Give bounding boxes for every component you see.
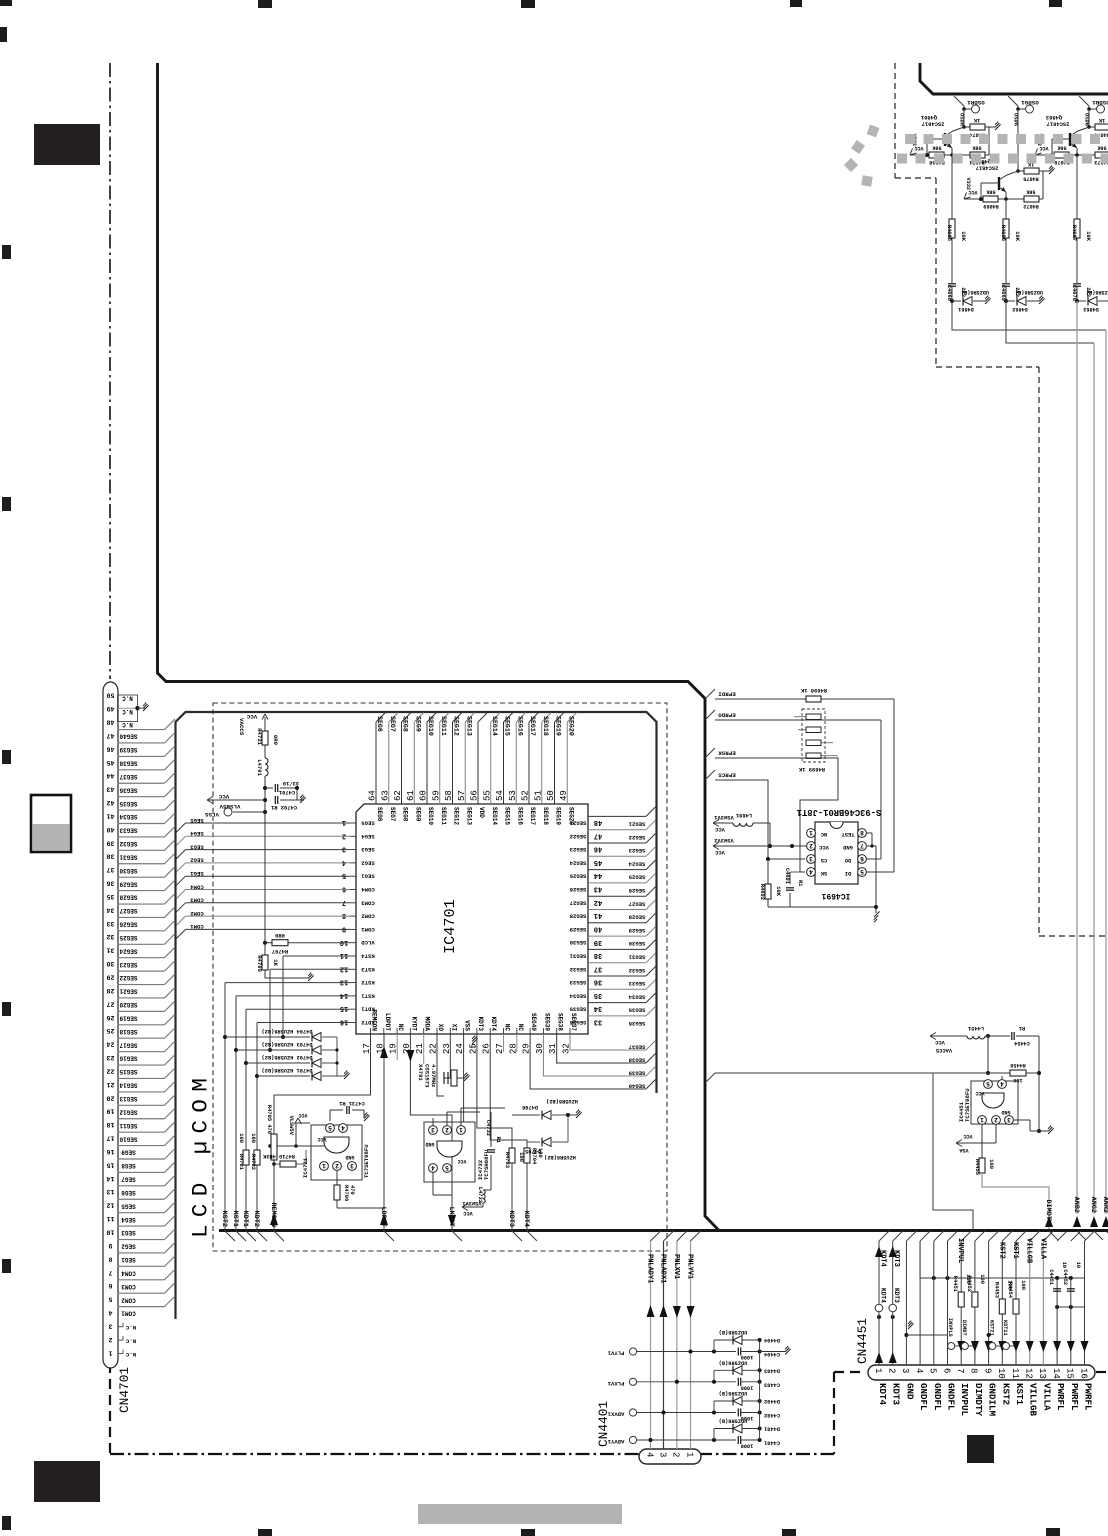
power arrow VCC V332 (B) bbox=[1035, 154, 1052, 156]
wire IC4701 pin 56 VDD to bus bbox=[477, 722, 479, 804]
svg-text:KST2: KST2 bbox=[220, 1211, 228, 1227]
wire IC4701 pin 6 COM4 to CN4701 bus bbox=[186, 889, 351, 891]
svg-text:33: 33 bbox=[107, 920, 115, 927]
wire IC4701 pin 2 SEG4 to CN4701 bus bbox=[186, 835, 351, 837]
svg-text:COM2: COM2 bbox=[361, 913, 375, 920]
wire IC4701 pin 40 SEG29 to bus bbox=[588, 922, 646, 924]
wire CN4701 pin 21 net SEG14 bbox=[118, 1077, 165, 1079]
svg-text:56K: 56K bbox=[971, 145, 981, 151]
svg-text:SEG4: SEG4 bbox=[121, 1216, 136, 1223]
wire CN4701 pin 47 net SEG40 bbox=[118, 729, 165, 731]
svg-text:D4863: D4863 bbox=[1083, 306, 1099, 312]
resistor R4698 bbox=[806, 696, 821, 702]
page border right of CN4451 bbox=[1096, 1371, 1108, 1373]
svg-text:C4701: C4701 bbox=[279, 789, 295, 795]
svg-text:Q4863: Q4863 bbox=[1046, 114, 1062, 120]
svg-text:SEG5: SEG5 bbox=[121, 1202, 136, 1209]
svg-text:10K: 10K bbox=[960, 231, 966, 241]
svg-text:SEG18: SEG18 bbox=[542, 807, 549, 825]
gate IC4732 AND bbox=[437, 1141, 462, 1157]
power arrow VLSW5V bbox=[207, 799, 265, 801]
wire CN4701 pin 23 net SEG16 bbox=[118, 1051, 165, 1053]
svg-text:L4691: L4691 bbox=[736, 812, 752, 818]
svg-text:SEG14: SEG14 bbox=[491, 716, 498, 736]
svg-text:D4703 HZU5R6(B2): D4703 HZU5R6(B2) bbox=[262, 1041, 313, 1047]
svg-text:R4075: R4075 bbox=[1023, 176, 1039, 182]
wire pin26 KDT4 bbox=[490, 1034, 527, 1231]
wire CN4701 pin 39 net SEG32 bbox=[118, 836, 165, 838]
svg-text:20: 20 bbox=[107, 1094, 115, 1101]
svg-text:47: 47 bbox=[107, 732, 115, 739]
wire cell output bbox=[1076, 300, 1078, 302]
wire EPRDO bbox=[715, 719, 881, 721]
wire IC4701 pin 51 SEG18 to bus bbox=[541, 722, 543, 804]
svg-text:SEG5: SEG5 bbox=[361, 820, 375, 827]
svg-text:PWRFL: PWRFL bbox=[1069, 1383, 1080, 1411]
svg-text:SEG35: SEG35 bbox=[628, 1007, 645, 1014]
svg-text:26: 26 bbox=[107, 1014, 115, 1021]
svg-text:C4702 R1: C4702 R1 bbox=[271, 804, 297, 810]
wire KDT3 bbox=[892, 1241, 894, 1304]
inductor L4691 bbox=[733, 823, 753, 826]
svg-text:R4706: R4706 bbox=[343, 1185, 349, 1201]
svg-text:VSA: VSA bbox=[958, 1147, 968, 1153]
svg-text:33/10: 33/10 bbox=[283, 780, 299, 786]
diode D4703 HZU5R6(B2) bbox=[234, 1048, 238, 1052]
svg-text:SEG32: SEG32 bbox=[119, 840, 137, 847]
resistor network R4699 d bbox=[806, 753, 821, 759]
node OSDR1 entry slash bbox=[954, 96, 964, 106]
svg-text:SEG24: SEG24 bbox=[119, 947, 137, 954]
svg-text:4: 4 bbox=[1000, 1080, 1004, 1087]
wire CN4701 pin 34 net SEG27 bbox=[118, 903, 165, 905]
svg-text:SEG16: SEG16 bbox=[119, 1055, 137, 1062]
crystal X4701 bbox=[436, 1086, 438, 1093]
capacitor C4404 1000 bbox=[737, 1348, 739, 1356]
svg-text:LDPDT: LDPDT bbox=[384, 1013, 391, 1031]
svg-text:UDZ5R6(B): UDZ5R6(B) bbox=[719, 1329, 748, 1335]
svg-text:SEG24: SEG24 bbox=[628, 860, 645, 867]
svg-text:D4402: D4402 bbox=[764, 1398, 780, 1404]
svg-text:34: 34 bbox=[594, 1004, 602, 1012]
svg-text:8: 8 bbox=[969, 1368, 979, 1373]
svg-text:N.C: N.C bbox=[125, 1337, 136, 1344]
wire C4701 right down bbox=[296, 788, 298, 800]
terminal PLXV1 bbox=[629, 1378, 636, 1385]
IC4701 pin 8 stub bbox=[350, 915, 356, 917]
svg-text:SEG29: SEG29 bbox=[569, 926, 586, 933]
svg-text:6: 6 bbox=[941, 1368, 951, 1373]
wire ADVY1 row bbox=[637, 1439, 736, 1441]
svg-text:17: 17 bbox=[107, 1135, 115, 1142]
svg-text:SEG16: SEG16 bbox=[516, 716, 523, 736]
svg-text:N.C: N.C bbox=[122, 694, 133, 701]
svg-text:SEG39: SEG39 bbox=[119, 746, 137, 753]
capacitor C4702 bbox=[274, 796, 276, 804]
terminal DIMDT bbox=[961, 1343, 968, 1350]
net exit EPRCS bbox=[705, 770, 715, 780]
page border left lower dash-dot bbox=[109, 1363, 111, 1453]
svg-text:UDZ5R6(B): UDZ5R6(B) bbox=[1015, 289, 1043, 295]
svg-text:UDZ5R6(B): UDZ5R6(B) bbox=[1086, 289, 1108, 295]
eeprom pin 6 DO bbox=[858, 855, 867, 864]
svg-text:COM3: COM3 bbox=[361, 899, 375, 906]
wire CN4701 pin 10 net SEG3 bbox=[118, 1225, 165, 1227]
resistor R4692 bbox=[765, 884, 771, 899]
wire GNDFL pin 5 bbox=[933, 1241, 935, 1365]
svg-text:INVPLS: INVPLS bbox=[947, 1318, 953, 1337]
svg-text:3: 3 bbox=[431, 1126, 435, 1133]
svg-text:1: 1 bbox=[108, 1349, 112, 1356]
svg-text:56K: 56K bbox=[931, 145, 941, 151]
svg-text:32: 32 bbox=[107, 933, 115, 940]
wire gate4 out bbox=[432, 1172, 434, 1195]
svg-text:1K: 1K bbox=[1098, 117, 1105, 123]
wire DIMDTY lower bbox=[974, 1307, 976, 1365]
svg-text:SEG37: SEG37 bbox=[629, 1044, 646, 1051]
svg-text:SEG19: SEG19 bbox=[555, 807, 562, 825]
svg-text:SEG33: SEG33 bbox=[119, 827, 137, 834]
wire EPRCS bbox=[715, 780, 805, 859]
wire IC4701 pin 62 SEG8 to bus bbox=[401, 722, 403, 804]
wire CN4701 pin 37 net SEG30 bbox=[118, 863, 165, 865]
wire CN4701 pin 35 net SEG28 bbox=[118, 890, 165, 892]
svg-text:PNLXV1: PNLXV1 bbox=[672, 1254, 680, 1279]
svg-text:CSS1573: CSS1573 bbox=[424, 1064, 431, 1088]
gate IC4732 pin2 bbox=[443, 1126, 452, 1135]
svg-text:31: 31 bbox=[107, 947, 115, 954]
svg-text:8: 8 bbox=[342, 911, 346, 919]
svg-text:1000: 1000 bbox=[741, 1354, 754, 1360]
grey overlay band row2 bbox=[897, 154, 1108, 164]
svg-text:4.97MHz: 4.97MHz bbox=[430, 1064, 437, 1088]
wire emitter chain bbox=[1005, 199, 1007, 219]
svg-text:KDT1: KDT1 bbox=[241, 1211, 249, 1227]
wire CN4701 pin 12 net SEG5 bbox=[118, 1198, 165, 1200]
svg-text:52: 52 bbox=[521, 790, 531, 801]
net exit KDT1 bbox=[246, 1231, 256, 1241]
svg-text:3: 3 bbox=[1007, 1116, 1011, 1123]
diode D4701 HZU5R6(B2) bbox=[255, 1074, 259, 1078]
svg-text:KST2: KST2 bbox=[361, 979, 375, 986]
svg-text:TEST: TEST bbox=[841, 831, 855, 837]
wire OSDG1 to collector node bbox=[1017, 109, 1019, 171]
resistor network R4699 c bbox=[806, 740, 821, 746]
svg-text:13: 13 bbox=[107, 1188, 115, 1195]
svg-text:28: 28 bbox=[107, 987, 115, 994]
ground C4702 bbox=[297, 799, 304, 801]
wire IC4701 pin 42 SEG27 to bus bbox=[588, 895, 646, 897]
resistor R4702 bbox=[254, 1150, 260, 1165]
resistor R4701 bbox=[243, 1150, 249, 1165]
svg-text:HZU5R6(B2): HZU5R6(B2) bbox=[544, 1154, 576, 1160]
gate IC4731 pin1 bbox=[320, 1162, 329, 1171]
resistor network dashed box bbox=[802, 709, 825, 762]
net exit KDT4 bbox=[527, 1231, 537, 1241]
svg-text:R4701: R4701 bbox=[238, 1154, 244, 1170]
svg-text:SEG36: SEG36 bbox=[119, 786, 137, 793]
svg-text:HZU5R6(B2): HZU5R6(B2) bbox=[546, 1098, 578, 1104]
inductor L4701 bbox=[265, 758, 268, 776]
power arrow VCC V332 (R) bbox=[910, 154, 927, 156]
svg-text:R4453: R4453 bbox=[993, 1282, 999, 1298]
svg-text:D4401: D4401 bbox=[764, 1426, 780, 1432]
svg-text:PNLADY1: PNLADY1 bbox=[646, 1254, 654, 1283]
svg-text:KST1: KST1 bbox=[1011, 1242, 1019, 1259]
wire IC4701 pin 36 SEG33 to bus bbox=[588, 975, 646, 977]
gate IC4451 pin2 bbox=[992, 1116, 1001, 1125]
svg-text:14: 14 bbox=[340, 991, 348, 999]
transistor Q4862 2SC4617 bbox=[998, 177, 1000, 190]
slash CN4451 pin 5 bbox=[934, 1231, 944, 1241]
wire VACC5 to R4731 bbox=[264, 726, 266, 731]
svg-text:12: 12 bbox=[107, 1202, 115, 1209]
svg-text:SEG35: SEG35 bbox=[569, 1006, 586, 1013]
slash CN4451 pin 13 bbox=[1043, 1231, 1053, 1241]
wire base bias bbox=[926, 139, 928, 155]
svg-text:SEG15: SEG15 bbox=[504, 807, 511, 825]
svg-text:COM2: COM2 bbox=[190, 910, 204, 917]
IC4701 pin 7 stub bbox=[350, 902, 356, 904]
wire IC4732 top bbox=[432, 1118, 434, 1126]
node VLSW junction bbox=[263, 798, 267, 802]
wire KST2 pin 10 bbox=[1001, 1241, 1003, 1299]
svg-text:35: 35 bbox=[594, 991, 602, 999]
svg-text:OSDB1: OSDB1 bbox=[1092, 99, 1108, 106]
wire CN4701 pin 40 net SEG33 bbox=[118, 823, 165, 825]
svg-text:SEG32: SEG32 bbox=[569, 966, 586, 973]
wire pin 31 SEG38 to bus bbox=[557, 1034, 646, 1063]
resistor R4731 bbox=[262, 731, 268, 745]
page border left dash-dot bbox=[109, 63, 111, 679]
svg-text:3: 3 bbox=[342, 845, 346, 853]
svg-text:9: 9 bbox=[342, 924, 346, 932]
svg-text:SEG39: SEG39 bbox=[543, 1013, 550, 1031]
svg-text:SEG30: SEG30 bbox=[628, 940, 645, 947]
registration tick left 5 bbox=[2, 1259, 11, 1273]
IC4701 pin 28 stub bbox=[516, 1028, 518, 1034]
svg-text:53: 53 bbox=[508, 790, 518, 801]
wire CN4701 pin 43 net SEG36 bbox=[118, 782, 165, 784]
resistor R4704 bbox=[526, 1140, 528, 1148]
wire pin10 VLCD bbox=[288, 942, 350, 944]
gate IC4732 pin1 bbox=[457, 1126, 466, 1135]
svg-text:EPRDI: EPRDI bbox=[718, 691, 736, 698]
svg-text:SEG29: SEG29 bbox=[628, 927, 645, 934]
svg-text:SEG39: SEG39 bbox=[628, 1070, 645, 1077]
gate IC4451 pin3 bbox=[1005, 1116, 1014, 1125]
wire EPRDI bbox=[715, 698, 806, 700]
arrow LKYDT down bbox=[448, 1215, 456, 1227]
svg-text:R4692: R4692 bbox=[759, 884, 765, 900]
svg-text:KST2: KST2 bbox=[1000, 1383, 1011, 1405]
rail GNDFL left end bbox=[919, 1241, 921, 1278]
wire GNDFL pin 4 bbox=[919, 1241, 921, 1365]
svg-text:0R0: 0R0 bbox=[275, 932, 285, 938]
node OSDG1 entry slash bbox=[1008, 96, 1018, 106]
ground pin3 bbox=[906, 1325, 913, 1327]
svg-text:VILLA: VILLA bbox=[1041, 1383, 1052, 1411]
svg-text:VLSW5V: VLSW5V bbox=[288, 1116, 294, 1136]
svg-text:45: 45 bbox=[107, 759, 115, 766]
wire KST3 drop bbox=[269, 969, 271, 1050]
wire R4692 C4691 rail bbox=[767, 859, 769, 884]
terminal KDT3 bbox=[889, 1304, 897, 1312]
resistor R4451 100 bbox=[958, 1292, 964, 1307]
svg-text:UDZ5R6(B): UDZ5R6(B) bbox=[719, 1418, 748, 1424]
svg-text:100: 100 bbox=[988, 1159, 994, 1169]
svg-text:TC7SET08FU: TC7SET08FU bbox=[363, 1144, 370, 1178]
svg-text:2: 2 bbox=[445, 1126, 449, 1133]
wire CN4701 pin 22 net SEG15 bbox=[118, 1064, 165, 1066]
svg-text:VCC: VCC bbox=[968, 189, 977, 195]
eeprom pin 2 VCC bbox=[807, 842, 816, 851]
wire IC4701 pin 1 SEG5 to CN4701 bus bbox=[186, 822, 351, 824]
power arrow VCC V332 (G) bbox=[964, 198, 981, 200]
diode D4705 HZU5R6(B2) bbox=[527, 1141, 540, 1143]
svg-text:SEG19: SEG19 bbox=[119, 1015, 137, 1022]
svg-text:KDT4: KDT4 bbox=[490, 1017, 497, 1032]
svg-text:PWRFL: PWRFL bbox=[1083, 1383, 1094, 1411]
wire CN4701 pin 14 net SEG7 bbox=[118, 1171, 165, 1173]
IC4701 pin 15 stub bbox=[350, 1008, 356, 1010]
svg-text:C4069: C4069 bbox=[1000, 285, 1006, 301]
svg-text:D4862: D4862 bbox=[1012, 306, 1028, 312]
registration tick left 4 bbox=[2, 1002, 11, 1016]
svg-text:SEG26: SEG26 bbox=[628, 887, 645, 894]
svg-text:SEG38: SEG38 bbox=[628, 1057, 645, 1064]
terminal OSDB1 bbox=[1088, 106, 1090, 109]
registration mark bottom 4 bbox=[1046, 1528, 1060, 1536]
registration mark bottom 2 bbox=[521, 1529, 535, 1536]
svg-text:60: 60 bbox=[419, 790, 429, 801]
svg-text:VCC: VCC bbox=[462, 1210, 472, 1216]
wire pin20 KYDT bbox=[410, 1034, 452, 1231]
svg-text:11: 11 bbox=[1010, 1368, 1020, 1379]
svg-text:100: 100 bbox=[1020, 1280, 1026, 1290]
power arrow VACC5 (IC4451) bbox=[930, 1035, 967, 1037]
node VLCD rail bbox=[263, 941, 267, 945]
svg-text:C4401: C4401 bbox=[764, 1440, 780, 1446]
svg-text:2SC4617: 2SC4617 bbox=[1047, 121, 1070, 127]
IC4701 pin 25 stub bbox=[476, 1028, 478, 1034]
svg-text:48: 48 bbox=[594, 818, 602, 826]
wire CN4401 PNLYV1 bbox=[690, 1241, 692, 1449]
svg-text:COM3: COM3 bbox=[190, 897, 204, 904]
svg-text:SEG20: SEG20 bbox=[119, 1001, 137, 1008]
terminal KST11 bbox=[1003, 1343, 1010, 1350]
connector CN4701 body bbox=[103, 682, 118, 1368]
IC4701 pin 11 stub bbox=[350, 955, 356, 957]
svg-text:SEG1: SEG1 bbox=[121, 1256, 136, 1263]
wire IC4701 pin 15 KDT1 bbox=[246, 1008, 350, 1010]
eeprom pin 8 TEST bbox=[858, 829, 867, 838]
svg-text:58: 58 bbox=[444, 790, 454, 801]
wire CN4701 pin 45 net SEG38 bbox=[118, 755, 165, 757]
svg-text:4: 4 bbox=[809, 868, 813, 875]
registration block left upper bbox=[34, 124, 100, 165]
wire CN4701 pin 7 net COM4 bbox=[118, 1265, 165, 1267]
svg-text:D4404: D4404 bbox=[763, 1337, 780, 1343]
svg-text:SEG23: SEG23 bbox=[569, 846, 586, 853]
svg-text:10: 10 bbox=[107, 1229, 115, 1236]
svg-text:KST21: KST21 bbox=[988, 1320, 994, 1336]
wire CN4701 pin 27 net SEG20 bbox=[118, 997, 165, 999]
wire CN4701 pin 4 net COM1 bbox=[118, 1306, 165, 1308]
svg-text:R4705 470: R4705 470 bbox=[266, 1105, 272, 1134]
IC4701 pin 22 stub bbox=[436, 1028, 438, 1034]
wire cell output bbox=[952, 301, 1106, 330]
svg-text:39: 39 bbox=[594, 938, 602, 946]
svg-text:41: 41 bbox=[594, 911, 602, 919]
IC4701 pin 16 stub bbox=[350, 1022, 356, 1024]
svg-text:SEG3: SEG3 bbox=[361, 846, 375, 853]
svg-text:1: 1 bbox=[459, 1126, 463, 1133]
wire INVP from heavy bbox=[705, 1073, 715, 1083]
wire rail to R4709 bbox=[264, 943, 266, 955]
svg-text:XO: XO bbox=[437, 1024, 444, 1032]
ground PLYV1 bbox=[760, 1351, 785, 1353]
svg-text:VACC5: VACC5 bbox=[238, 718, 245, 736]
svg-text:30: 30 bbox=[107, 960, 115, 967]
svg-text:KDT4: KDT4 bbox=[879, 1250, 887, 1267]
registration square bottom-right bbox=[967, 1435, 994, 1463]
node OSDB1 entry slash bbox=[1079, 96, 1089, 106]
svg-text:CN4701: CN4701 bbox=[117, 1367, 132, 1413]
svg-text:100: 100 bbox=[250, 1133, 256, 1143]
svg-text:GNDFL: GNDFL bbox=[932, 1383, 943, 1411]
svg-text:44: 44 bbox=[107, 772, 115, 779]
svg-text:SEG4: SEG4 bbox=[190, 830, 204, 837]
zener D4401 UDZ5R6(B) bbox=[713, 1429, 715, 1441]
wire L4701 down bbox=[264, 776, 266, 943]
slash CN4451 pin 12 bbox=[1030, 1231, 1040, 1241]
gate IC4731 pin5 bbox=[326, 1124, 335, 1133]
svg-text:38: 38 bbox=[107, 853, 115, 860]
svg-text:VILLGB: VILLGB bbox=[1028, 1383, 1039, 1417]
resistor R4710 bbox=[280, 1161, 296, 1167]
wire CN4701 pin 24 net SEG17 bbox=[118, 1037, 165, 1039]
svg-text:SEG2: SEG2 bbox=[361, 859, 375, 866]
svg-text:CS: CS bbox=[820, 857, 827, 863]
eeprom pin 3 CS bbox=[807, 855, 816, 864]
rail GNDFL bbox=[920, 1277, 1085, 1279]
svg-text:1: 1 bbox=[342, 818, 346, 826]
svg-text:D4706: D4706 bbox=[522, 1104, 538, 1110]
svg-text:41: 41 bbox=[107, 813, 115, 820]
svg-text:KST4: KST4 bbox=[361, 953, 375, 960]
wire IC4701 pin 48 SEG21 to bus bbox=[588, 815, 646, 817]
registration mark top-left corner bbox=[0, 0, 12, 6]
svg-text:3: 3 bbox=[809, 855, 813, 862]
svg-text:R4731: R4731 bbox=[256, 728, 263, 745]
power arrow VSA bbox=[956, 1140, 962, 1147]
IC4701 pin 5 stub bbox=[350, 875, 356, 877]
svg-text:4: 4 bbox=[431, 1164, 435, 1171]
wire pin 30 SEG39 to bus bbox=[543, 1034, 646, 1076]
svg-text:KST2: KST2 bbox=[997, 1242, 1005, 1259]
svg-text:SEG18: SEG18 bbox=[542, 716, 549, 736]
eeprom pin 7 GND bbox=[858, 842, 867, 851]
svg-text:1: 1 bbox=[980, 1116, 984, 1123]
gate IC4451 pin5 bbox=[984, 1080, 993, 1089]
svg-text:SEG35: SEG35 bbox=[119, 800, 137, 807]
svg-text:D4701 HZU5R6(B2): D4701 HZU5R6(B2) bbox=[262, 1067, 313, 1073]
IC4701 pin 9 stub bbox=[350, 928, 356, 930]
registration mark top 4 bbox=[1049, 0, 1062, 7]
wire CN4701 pin 41 net SEG34 bbox=[118, 809, 165, 811]
svg-text:VILLGB: VILLGB bbox=[1025, 1238, 1033, 1264]
